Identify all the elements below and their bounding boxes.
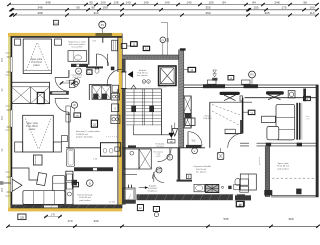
- svg-text:na h=2.20m: na h=2.20m: [71, 47, 82, 49]
- svg-text:Stubiste: Stubiste: [139, 69, 147, 72]
- svg-text:90: 90: [1, 148, 4, 151]
- svg-text:470: 470: [67, 219, 72, 223]
- svg-text:pod: parket: pod: parket: [80, 199, 91, 202]
- svg-text:138: 138: [113, 0, 118, 4]
- svg-text:190: 190: [208, 0, 213, 4]
- svg-text:170: 170: [51, 213, 56, 216]
- svg-text:Stan broj 2 - jednosoban: Stan broj 2 - jednosoban: [76, 130, 101, 133]
- svg-text:325: 325: [264, 11, 269, 15]
- svg-text:ker. plocice: ker. plocice: [137, 74, 148, 77]
- svg-text:385: 385: [1, 187, 4, 192]
- svg-text:348: 348: [45, 0, 50, 4]
- svg-text:98: 98: [303, 0, 307, 4]
- svg-text:190: 190: [102, 6, 107, 10]
- svg-text:355: 355: [205, 6, 210, 10]
- svg-text:330: 330: [93, 219, 98, 223]
- svg-text:140: 140: [125, 0, 130, 4]
- svg-text:otv. 240: otv. 240: [109, 201, 115, 204]
- svg-text:298: 298: [37, 11, 42, 15]
- svg-text:P=6.4m2: P=6.4m2: [203, 118, 212, 120]
- svg-text:175: 175: [281, 6, 286, 10]
- svg-text:2.1m: 2.1m: [306, 118, 310, 120]
- svg-text:n=90: n=90: [92, 41, 96, 43]
- svg-text:Terasa: Terasa: [204, 114, 211, 117]
- svg-text:350: 350: [1, 115, 4, 120]
- svg-text:Dnevni boravak: Dnevni boravak: [77, 193, 93, 196]
- svg-text:VM: VM: [170, 141, 173, 143]
- svg-text:n.220: n.220: [156, 156, 161, 158]
- svg-text:140: 140: [164, 0, 169, 4]
- svg-text:P=2.5m2: P=2.5m2: [156, 146, 164, 148]
- svg-text:100: 100: [100, 0, 105, 4]
- svg-text:260: 260: [205, 11, 210, 15]
- svg-text:P=12.5m2: P=12.5m2: [31, 62, 42, 64]
- svg-text:P=19.50 m2: P=19.50 m2: [79, 197, 92, 199]
- svg-text:50: 50: [76, 6, 80, 10]
- svg-text:90: 90: [89, 0, 93, 4]
- svg-text:garderoba: garderoba: [259, 157, 261, 165]
- svg-text:313: 313: [93, 11, 98, 15]
- svg-text:90: 90: [91, 6, 95, 10]
- svg-text:parket: parket: [33, 64, 40, 67]
- svg-text:84: 84: [222, 0, 226, 4]
- svg-text:110: 110: [310, 11, 315, 15]
- svg-text:140: 140: [186, 0, 191, 4]
- svg-text:parket / keramika: parket / keramika: [76, 136, 94, 139]
- svg-text:Spav. soba: Spav. soba: [31, 59, 43, 61]
- svg-text:348: 348: [37, 6, 42, 10]
- svg-text:390: 390: [288, 217, 293, 221]
- svg-text:12B: 12B: [20, 217, 25, 219]
- svg-text:pod: parket: pod: parket: [278, 168, 289, 171]
- svg-text:16x17.2/28: 16x17.2/28: [158, 87, 167, 89]
- svg-text:O: O: [114, 106, 116, 110]
- svg-text:535: 535: [223, 217, 228, 221]
- svg-text:84: 84: [252, 0, 256, 4]
- svg-text:delu sniziti plafon: delu sniziti plafon: [69, 43, 86, 46]
- svg-text:Spav. soba: Spav. soba: [26, 123, 38, 125]
- svg-text:90: 90: [1, 88, 4, 91]
- svg-text:WC: WC: [192, 140, 196, 142]
- svg-text:395: 395: [1, 57, 4, 62]
- svg-text:P=11.95m2: P=11.95m2: [26, 126, 38, 128]
- svg-text:Q: Q: [89, 72, 91, 74]
- svg-text:ker. plocice: ker. plocice: [196, 170, 207, 173]
- svg-text:Spav. soba: Spav. soba: [278, 163, 290, 165]
- svg-text:P=12.08 m2: P=12.08 m2: [277, 166, 290, 168]
- svg-text:P=48.05 m2: P=48.05 m2: [76, 134, 89, 136]
- svg-text:248: 248: [274, 0, 279, 4]
- svg-text:100: 100: [309, 6, 314, 10]
- svg-text:140: 140: [143, 0, 148, 4]
- svg-text:ker.plocice: ker.plocice: [148, 191, 158, 193]
- svg-text:105: 105: [253, 6, 258, 10]
- svg-text:parket: parket: [29, 128, 36, 131]
- svg-text:O: O: [169, 156, 171, 159]
